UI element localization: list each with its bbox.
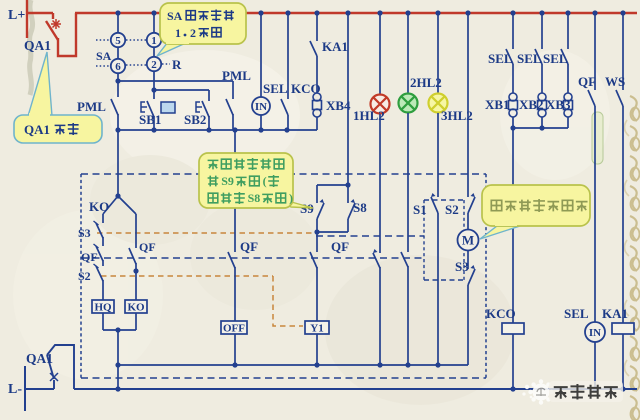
L- rail [74,388,637,390]
SA selector: node 2 [153,47,155,57]
svg-text:KO: KO [127,301,145,313]
SA dotted linkages [96,39,110,41]
svg-text:KCO: KCO [486,306,516,321]
contact KA1 [316,13,318,41]
svg-text:SA: SA [167,9,183,23]
svg-text:QA1: QA1 [24,122,50,137]
callout: spring not charged [480,226,520,239]
svg-text:QF: QF [240,239,258,254]
svg-text:2HL2: 2HL2 [410,75,442,90]
svg-text:1: 1 [151,35,157,47]
svg-text:R: R [172,57,182,72]
test jack XB4 [316,56,318,93]
coil Y1 [316,267,318,321]
lamp 3HL2 [437,13,439,94]
sub-bus row1 return [118,129,317,131]
coil OFF [234,267,236,321]
contact QF (OFF branch) [234,130,236,252]
watermark text [549,381,623,402]
svg-text:KA1: KA1 [602,306,628,321]
device SEL (IN) right [594,106,596,322]
svg-text:M: M [462,233,474,248]
node A wires from SA [117,73,119,97]
svg-text:S9: S9 [221,174,234,188]
svg-text:(: ( [263,174,267,188]
svg-text:KA1: KA1 [322,39,348,54]
coil KA1 [622,106,624,323]
dashed orange line 1 [97,232,316,234]
motor M [467,213,469,230]
svg-text:XB3: XB3 [546,97,571,112]
svg-text:QF: QF [139,240,156,254]
svg-text:L+: L+ [8,8,25,23]
svg-text:IN: IN [255,101,267,113]
svg-text:KO: KO [89,199,109,214]
svg-text:QF: QF [578,74,596,89]
wire to KO node [117,130,119,196]
contact S2 (left chain) [102,260,104,266]
svg-text:SEL: SEL [564,306,589,321]
contact S8 [347,185,349,203]
svg-text:5: 5 [115,35,121,47]
contact QF (SEL branch) [594,13,596,90]
svg-text:IN: IN [589,327,601,339]
pushbutton SB2 [202,101,209,117]
contact QF (left chain) [102,237,104,246]
contact S1 [437,113,439,197]
svg-text:QA1: QA1 [26,351,53,366]
contact WS [622,13,624,90]
svg-text:S2: S2 [78,269,91,283]
lamp 1HL2 [379,13,381,95]
wire feed S9/S8 [347,13,349,185]
contact SEL 2 [541,13,543,49]
svg-text:Y1: Y1 [310,322,323,334]
svg-text:SEL: SEL [263,81,288,96]
dashed enclosure box [81,173,486,175]
contact SEL 3 [567,13,569,49]
svg-text:S8: S8 [248,191,261,205]
contact S3 (below M) [467,251,469,269]
callout: QA1 duankai [28,52,52,116]
SA selector: node 1 [153,13,155,33]
svg-text:1: 1 [175,26,181,40]
callout: switch position note [277,198,313,208]
callout: SA zhiyu jiudi [157,42,188,56]
test jack XB1 [512,64,514,93]
coil KCO [512,128,514,323]
svg-text:XB1: XB1 [485,97,510,112]
test jack XB3 [567,64,569,93]
join to return [103,329,136,331]
svg-text:2: 2 [190,26,196,40]
contact QF (1HL2 branch) [379,114,381,253]
coil HQ [92,300,114,313]
svg-text:S1: S1 [413,202,427,217]
test jack XB2 [541,64,543,93]
svg-text:S3: S3 [78,226,91,240]
watermark logo [522,379,553,404]
contact QF (Y1 branch) [316,232,318,252]
svg-text:L-: L- [8,382,22,397]
svg-text:QA1: QA1 [24,38,51,53]
svg-text:SEL: SEL [517,51,542,66]
svg-text:S2: S2 [445,202,459,217]
contact (2HL2 branch) [407,113,409,252]
svg-text:OFF: OFF [223,322,245,334]
dashed orange link to Y1 [101,275,273,277]
disconnect QA1 bottom [24,366,26,411]
svg-text:QF: QF [81,250,98,264]
svg-text:SEL: SEL [543,51,568,66]
svg-text:6: 6 [115,61,121,73]
svg-text:PML: PML [77,99,106,114]
svg-text:QF: QF [331,239,349,254]
pushbutton SB1 [208,90,210,101]
svg-text:SB2: SB2 [184,112,206,127]
contact S3 (left chain) [102,214,104,223]
coil KO [125,300,147,313]
svg-text:S3: S3 [455,259,469,274]
contact KO [103,196,118,214]
svg-text:SEL: SEL [488,51,513,66]
svg-text:SA: SA [96,49,112,63]
svg-text:2: 2 [151,59,157,71]
SA selector: node 5 [117,13,119,33]
svg-text:HQ: HQ [94,301,112,313]
svg-text:WS: WS [605,74,625,89]
disconnect QA1 (open, red) [52,13,54,19]
SA selector: node 6 [117,47,119,59]
interlock box [161,102,175,113]
dashed mid line navy [81,257,424,259]
lamp 2HL2 [407,13,409,94]
svg-text:XB2: XB2 [519,97,544,112]
contact KCO [287,13,289,99]
svg-text:S8: S8 [353,200,367,215]
contact S9 [316,185,318,203]
XB common bus [513,127,568,129]
contact SEL 1 [512,13,514,49]
contact QF (right of KO node) [118,196,136,214]
svg-text:): ) [289,191,293,205]
dashed sub box S1 S2 [424,199,464,201]
svg-text:SB1: SB1 [139,112,161,127]
svg-text:PML: PML [222,68,251,83]
mid return bus [118,364,468,366]
contact S2 [467,13,469,197]
red bus [75,12,637,14]
device SEL (IN) [260,13,262,97]
dashed line navy S9 row [316,235,424,237]
